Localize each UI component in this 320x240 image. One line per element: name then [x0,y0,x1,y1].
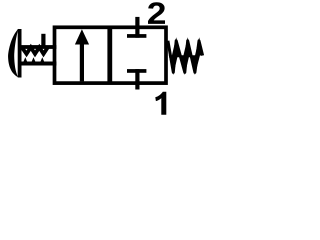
detent zigzag [22,47,48,54]
spring peak fill 2 [183,37,192,57]
valve divider [107,27,112,83]
label 1 [155,92,166,115]
valve body box [55,27,167,83]
detent lower tooth 2 [32,57,36,62]
label 2 [148,2,165,24]
blocked port T bottom crossbar [127,69,146,73]
blocked port T top crossbar [127,34,146,38]
blocked port T bottom stem [135,69,139,83]
port 1 stub [135,83,139,90]
spring peak fill 1 [172,37,181,57]
actuator stem bottom rail [20,62,57,66]
spring valley fill 3 [191,55,200,75]
flow arrow head [75,29,89,44]
spring valley fill 1 [169,55,178,75]
spring peak fill 3 [195,37,203,55]
spring valley fill 2 [180,55,189,75]
actuator stem top rail [20,45,57,49]
mushroom button cap arc [8,29,18,78]
flow arrow shaft [80,40,84,81]
detent pin tick [41,34,45,46]
mushroom button chord bar [18,29,22,78]
return spring [168,41,203,73]
detent lower tooth 3 [40,57,44,62]
port 2 stub [135,17,139,29]
detent lower tooth 1 [23,57,27,62]
blocked port T top stem [135,28,139,38]
